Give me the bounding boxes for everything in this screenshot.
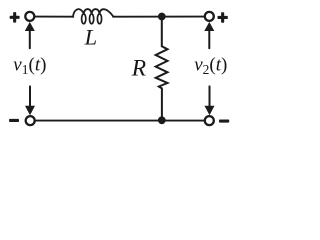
terminal port2 bottom (open circle) xyxy=(205,116,214,125)
terminal port2 top (open circle) xyxy=(205,12,214,21)
node junction top (dot) xyxy=(158,13,166,21)
node junction bottom (dot) xyxy=(158,116,166,124)
svg-text:L: L xyxy=(84,24,98,49)
svg-text:v1(t): v1(t) xyxy=(13,55,46,77)
resistor R (vertical zigzag) xyxy=(156,20,168,116)
terminal port1 top (open circle) xyxy=(25,12,34,21)
arrow up for v1 xyxy=(25,22,35,48)
minus sign (port 2 polarity -) xyxy=(219,120,229,123)
arrow up for v2 xyxy=(204,22,214,48)
svg-text:v2(t): v2(t) xyxy=(194,55,227,77)
wire top-left: terminal to inductor xyxy=(35,16,74,18)
arrow down for v1 xyxy=(25,86,35,115)
wire top-middle: inductor to right terminal xyxy=(113,16,204,18)
inductor L coil xyxy=(73,9,113,24)
plus sign (port 1 polarity +) xyxy=(10,12,20,23)
svg-text:R: R xyxy=(131,55,146,81)
terminal port1 bottom (open circle) xyxy=(26,116,35,125)
minus sign (port 1 polarity -) xyxy=(9,119,19,122)
plus sign (port 2 polarity +) xyxy=(218,12,228,23)
arrow down for v2 xyxy=(205,86,215,115)
wire bottom: left terminal to right terminal xyxy=(35,120,205,122)
